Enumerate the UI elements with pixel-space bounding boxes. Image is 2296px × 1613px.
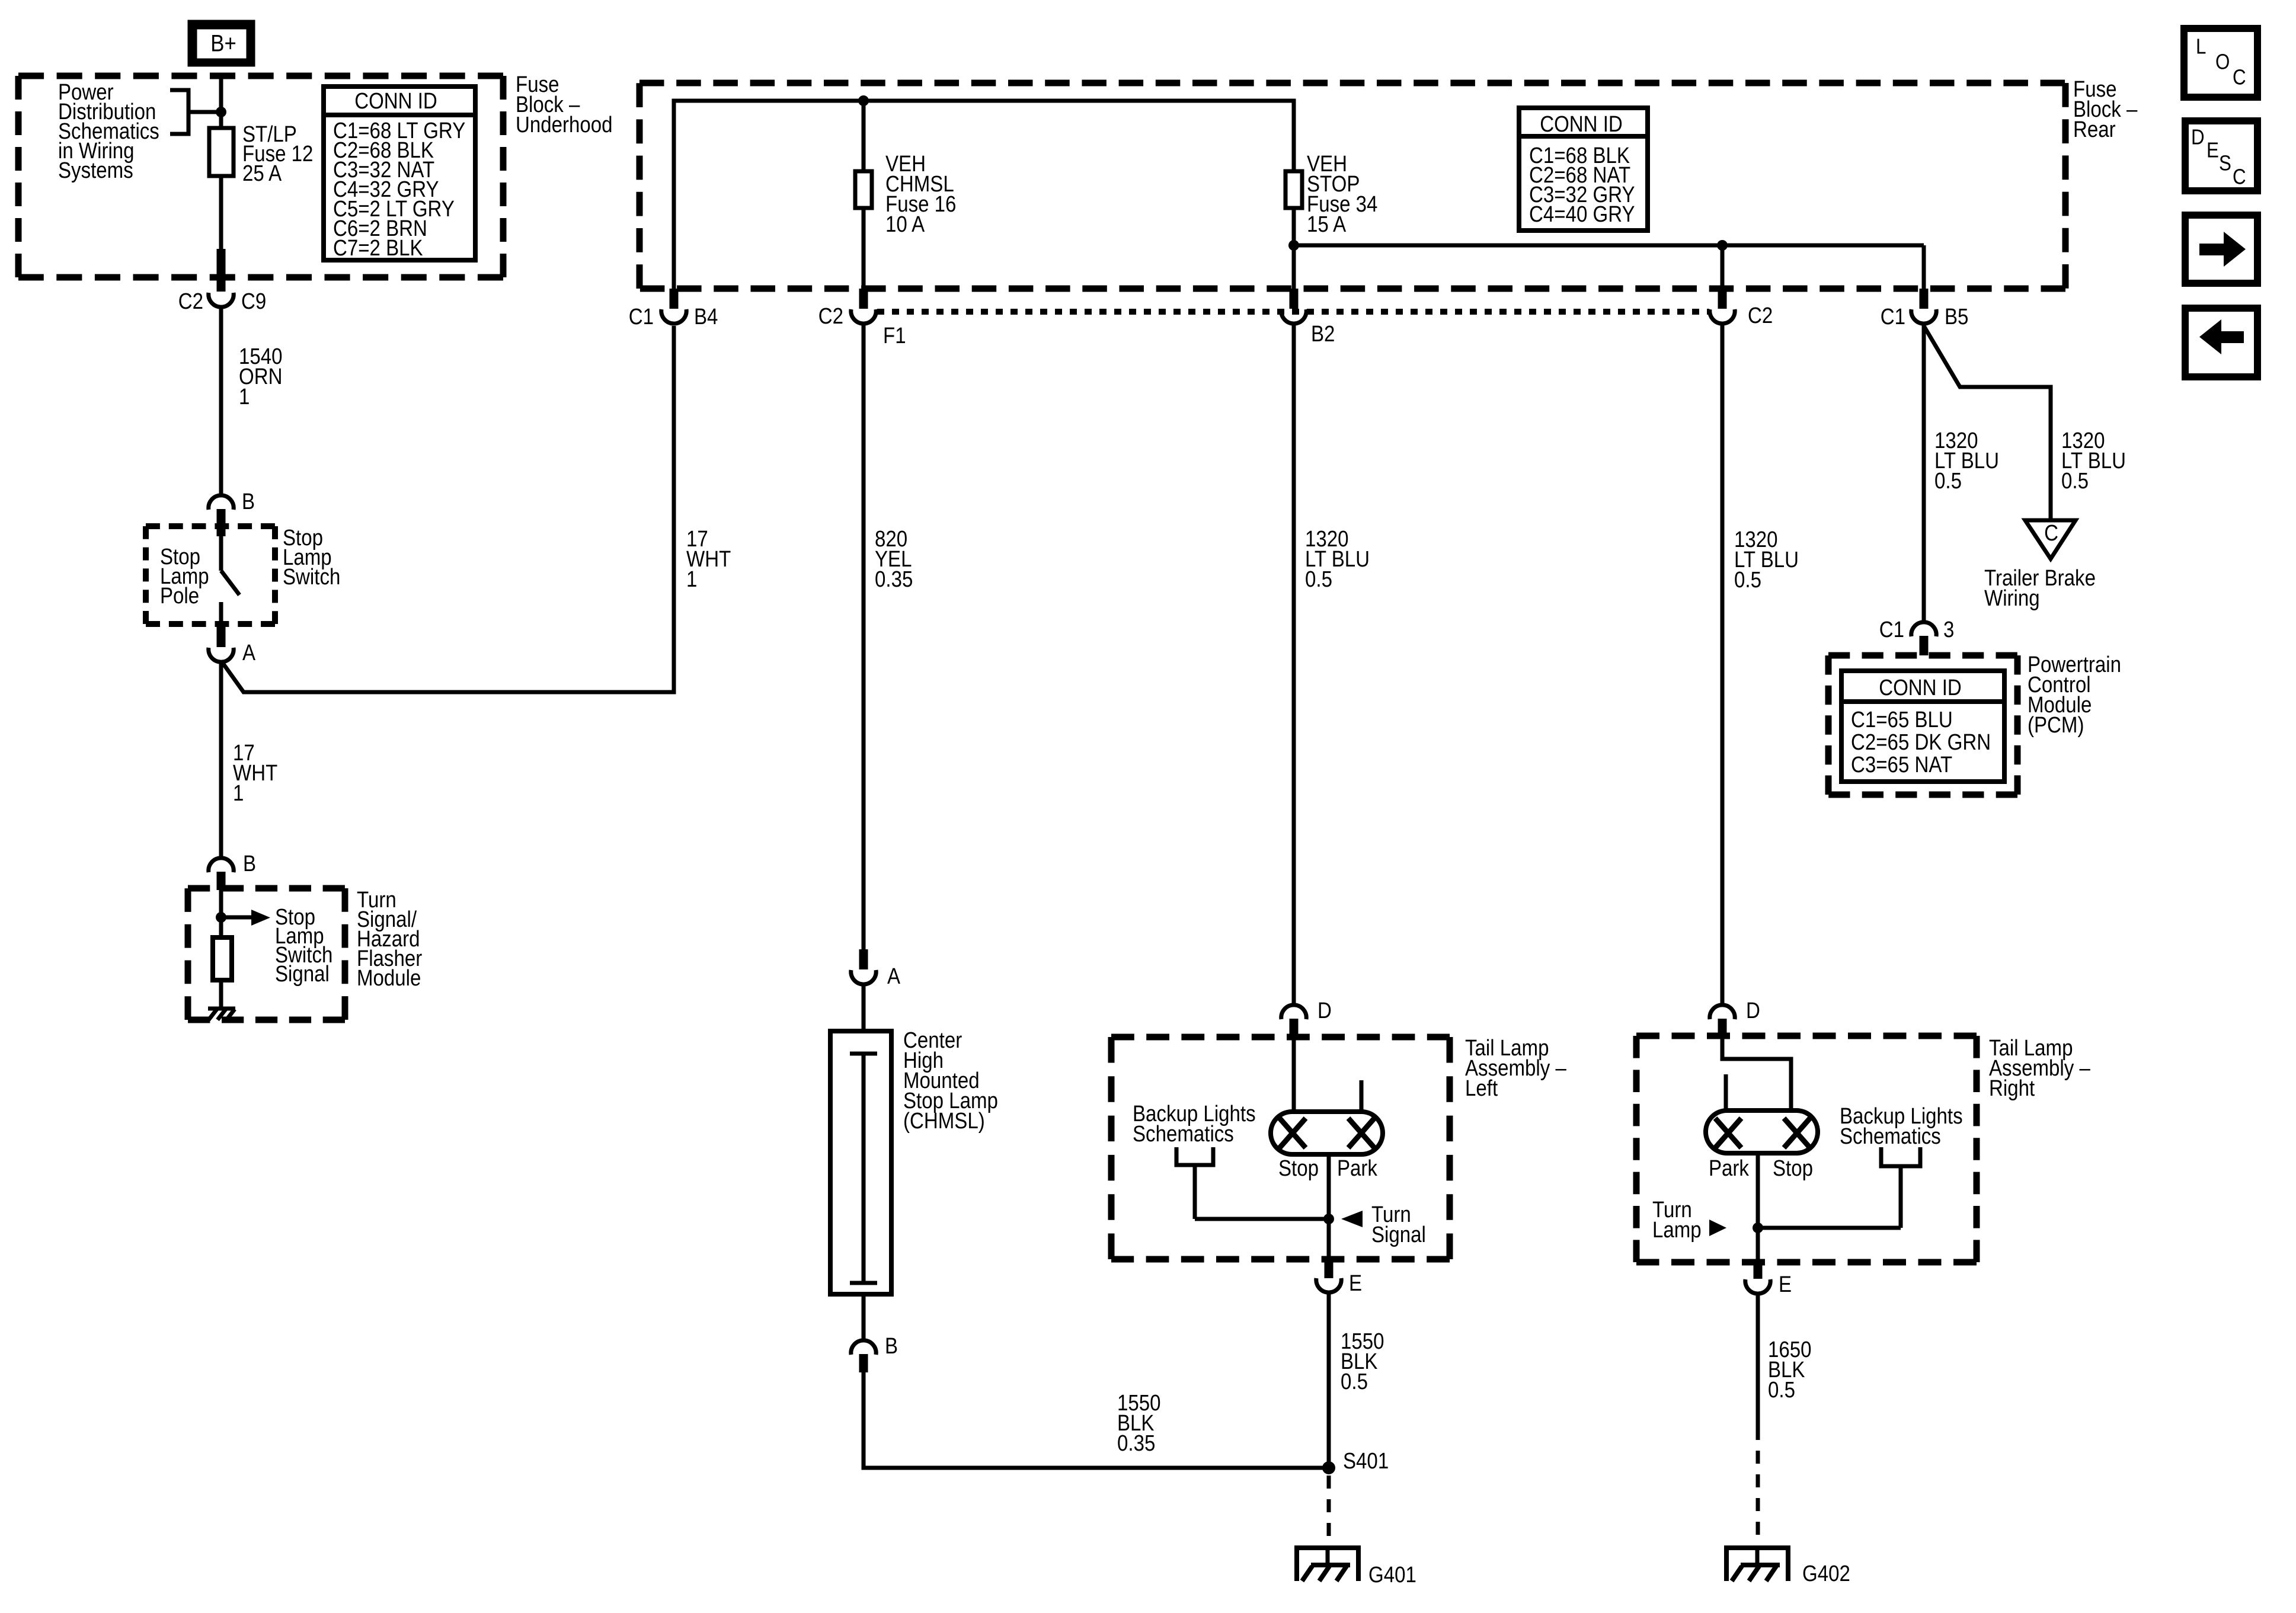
- switch: lower contact lead: [219, 602, 223, 626]
- connector B CHMSL: [851, 1340, 876, 1355]
- svg-text:D: D: [1318, 998, 1332, 1023]
- bracket from note to B+ feed wire: [170, 90, 188, 134]
- svg-text:E: E: [2207, 139, 2219, 163]
- svg-text:C4=40 GRY: C4=40 GRY: [1529, 201, 1635, 227]
- wire 1650 BLK 0.5: [1756, 1293, 1760, 1440]
- right bulb park filament stub: [1724, 1074, 1728, 1113]
- bus wire from fuse 34 to B5 column: [1294, 244, 1924, 248]
- wire fuse 16 to connector F1: [862, 206, 866, 290]
- fuse F34 VEH STOP 15A: [1285, 171, 1302, 208]
- fuse F12 ST/LP 25A: [209, 128, 234, 176]
- junction dot turn signal left: [1323, 1214, 1334, 1224]
- svg-text:A: A: [242, 640, 255, 665]
- svg-text:A: A: [887, 964, 900, 989]
- svg-text:C2: C2: [818, 303, 843, 329]
- svg-text:O: O: [2215, 50, 2230, 75]
- nav icon LOC: [2184, 28, 2257, 97]
- svg-text:C7=2 BLK: C7=2 BLK: [333, 235, 423, 261]
- svg-text:C2: C2: [178, 289, 203, 314]
- conn id table rear: [1519, 108, 1648, 231]
- svg-text:G402: G402: [1802, 1561, 1850, 1586]
- svg-text:Stop: Stop: [1773, 1156, 1813, 1181]
- junction dot on bus at C2 right column: [1717, 240, 1728, 251]
- svg-text:Signal: Signal: [1371, 1222, 1426, 1247]
- svg-text:C1=65 BLU: C1=65 BLU: [1851, 707, 1953, 732]
- svg-text:10 A: 10 A: [885, 212, 925, 237]
- junction dot on B+ feed: [216, 107, 226, 117]
- svg-text:0.5: 0.5: [1341, 1369, 1368, 1394]
- ground in flasher module: [208, 1007, 235, 1011]
- wire 1550 BLK 0.5 E to S401: [1327, 1292, 1331, 1468]
- turn signal arrow left: [1341, 1211, 1363, 1227]
- svg-text:C3=65 NAT: C3=65 NAT: [1851, 752, 1952, 777]
- backup lights bracket left: [1176, 1147, 1213, 1165]
- splice S401: [1322, 1461, 1335, 1474]
- trailer brake wiring connector C: [2025, 520, 2076, 559]
- svg-text:0.5: 0.5: [1934, 468, 1962, 494]
- bus wire top of rear fuse block: [674, 101, 1294, 289]
- stop lamp switch dashed box: [146, 523, 275, 529]
- svg-text:B: B: [242, 489, 255, 514]
- nav icon DESC: [2185, 121, 2257, 191]
- svg-text:(PCM): (PCM): [2028, 712, 2084, 738]
- fuse block underhood dashed box: [18, 73, 503, 79]
- wire 17 WHT from switch A to rear fuse block C1 B4: [221, 326, 674, 692]
- svg-text:B: B: [885, 1333, 898, 1359]
- svg-text:D: D: [2191, 126, 2205, 150]
- svg-text:Right: Right: [1989, 1076, 2035, 1101]
- ground G402: [1724, 1545, 1790, 1550]
- svg-text:C1: C1: [629, 304, 654, 329]
- junction dot at fuse 16 tap: [858, 95, 869, 106]
- wire left bulb to E: [1327, 1154, 1331, 1261]
- svg-text:(CHMSL): (CHMSL): [903, 1108, 985, 1134]
- svg-text:CONN ID: CONN ID: [354, 88, 437, 114]
- wire B+ to fuse 12: [219, 75, 223, 130]
- connector C1/B5: [1920, 289, 1929, 309]
- svg-text:B+: B+: [210, 30, 236, 56]
- svg-text:Pole: Pole: [160, 583, 199, 609]
- svg-text:C1: C1: [1879, 617, 1904, 642]
- svg-text:1: 1: [686, 567, 697, 592]
- connector E right: [1754, 1260, 1763, 1279]
- connector A CHMSL: [859, 949, 868, 969]
- svg-text:Left: Left: [1465, 1076, 1498, 1101]
- svg-text:C: C: [2233, 165, 2246, 190]
- connector C2/C9 fuse block underhood: [217, 249, 226, 292]
- connector B flasher module: [209, 858, 234, 872]
- nav icon previous (left arrow): [2185, 308, 2257, 377]
- fuse block rear dashed box: [639, 80, 2065, 87]
- svg-text:Module: Module: [357, 965, 421, 991]
- svg-text:Park: Park: [1337, 1156, 1377, 1181]
- wire B5 to trailer brake connector: [1924, 326, 2051, 522]
- wire fuse 12 to connector C2/C9: [219, 174, 223, 251]
- wire bus to B5 stub: [1922, 245, 1926, 290]
- svg-text:25 A: 25 A: [242, 161, 282, 186]
- resistor in flasher module: [213, 937, 232, 980]
- svg-text:C9: C9: [241, 289, 266, 314]
- junction dot turn lamp right: [1753, 1222, 1763, 1233]
- right tail lamp bulb: [1706, 1110, 1818, 1153]
- junction dot stop lamp switch signal: [216, 912, 226, 923]
- CHMSL lamp filament: [850, 1052, 877, 1056]
- tail lamp assembly right dashed box: [1636, 1033, 1977, 1039]
- svg-text:3: 3: [1943, 617, 1954, 642]
- svg-text:CONN ID: CONN ID: [1879, 675, 1962, 700]
- svg-text:B5: B5: [1945, 304, 1968, 329]
- svg-text:B: B: [243, 851, 256, 876]
- wire 1540 ORN segment: [219, 306, 223, 497]
- svg-text:C1: C1: [1881, 304, 1905, 329]
- wire 1320 LT BLU to left tail lamp D: [1292, 324, 1296, 1005]
- svg-text:B2: B2: [1311, 321, 1335, 347]
- svg-text:L: L: [2196, 35, 2206, 59]
- svg-text:Signal: Signal: [275, 961, 330, 987]
- wire fuse16 tap: [862, 101, 866, 173]
- in-line connector dotted line: [877, 309, 1709, 315]
- svg-text:C2=65 DK GRN: C2=65 DK GRN: [1851, 729, 1991, 755]
- left tail lamp bulb: [1271, 1112, 1383, 1154]
- svg-text:0.35: 0.35: [1117, 1430, 1155, 1456]
- connector D right tail lamp: [1710, 1005, 1735, 1019]
- svg-text:Switch: Switch: [283, 564, 340, 590]
- svg-text:Underhood: Underhood: [516, 112, 613, 137]
- dashed wire to ground G402: [1756, 1451, 1760, 1547]
- dashed wire S401 to ground G401: [1327, 1476, 1331, 1547]
- connector A stop lamp switch: [217, 624, 226, 647]
- wire B5 to PCM connector: [1922, 324, 1926, 622]
- backup lights bracket right: [1881, 1147, 1920, 1166]
- connector D left tail lamp: [1281, 1005, 1306, 1019]
- wire right bulb to E: [1756, 1153, 1760, 1263]
- wire D to left bulb: [1292, 1038, 1296, 1114]
- svg-text:Wiring: Wiring: [1984, 585, 2040, 611]
- svg-text:D: D: [1746, 998, 1760, 1023]
- wire resistor to ground: [219, 980, 223, 1009]
- svg-text:0.35: 0.35: [875, 567, 913, 592]
- svg-text:F1: F1: [883, 323, 906, 348]
- svg-text:Schematics: Schematics: [1133, 1121, 1234, 1147]
- wire 17 WHT down to flasher: [219, 661, 223, 858]
- junction dot below fuse 34: [1288, 240, 1299, 251]
- ground G401: [1294, 1545, 1361, 1550]
- svg-text:CONN ID: CONN ID: [1540, 111, 1623, 137]
- svg-text:Systems: Systems: [58, 158, 133, 183]
- switch: upper contact lead: [219, 536, 223, 571]
- wire fuse 34 down to B2: [1292, 206, 1296, 290]
- connector C2/F1: [859, 289, 868, 309]
- battery feed B+ symbol: [188, 20, 255, 66]
- connector B2: [1290, 289, 1299, 309]
- wire B into flasher: [219, 890, 223, 939]
- wire A to CHMSL lamp: [862, 983, 866, 1033]
- CHMSL lamp housing: [830, 1031, 891, 1294]
- turn signal / hazard flasher module dashed box: [188, 885, 345, 892]
- svg-text:0.5: 0.5: [2061, 468, 2089, 494]
- svg-text:E: E: [1779, 1272, 1792, 1297]
- wire bus to C2 right stub: [1721, 245, 1725, 290]
- connector C2 (right): [1718, 289, 1727, 309]
- connector B stop lamp switch: [209, 495, 234, 510]
- arrow stop lamp switch signal: [221, 916, 252, 920]
- wire 1550 BLK 0.35 to splice S401: [864, 1372, 1329, 1468]
- svg-text:1: 1: [239, 384, 250, 409]
- svg-text:1: 1: [233, 780, 244, 806]
- nav icon next (right arrow): [2185, 215, 2257, 283]
- svg-text:C: C: [2233, 66, 2246, 90]
- svg-text:C2: C2: [1748, 303, 1773, 328]
- left bulb park filament stub: [1360, 1080, 1364, 1114]
- svg-text:G401: G401: [1368, 1562, 1416, 1588]
- svg-text:15 A: 15 A: [1307, 212, 1346, 237]
- svg-text:B4: B4: [694, 304, 718, 329]
- fuse F16 VEH CHMSL 10A: [855, 171, 872, 208]
- turn lamp arrow right: [1709, 1220, 1726, 1236]
- svg-text:0.5: 0.5: [1734, 567, 1761, 593]
- svg-text:0.5: 0.5: [1305, 567, 1332, 592]
- svg-text:0.5: 0.5: [1768, 1377, 1795, 1403]
- connector C1/B4: [670, 289, 679, 309]
- svg-text:Park: Park: [1709, 1156, 1749, 1181]
- svg-text:Rear: Rear: [2073, 117, 2116, 142]
- svg-text:S401: S401: [1343, 1448, 1389, 1474]
- svg-text:Stop: Stop: [1278, 1156, 1319, 1181]
- wire D to right bulb: [1722, 1038, 1791, 1113]
- connector E left: [1325, 1259, 1334, 1278]
- svg-text:C: C: [2044, 520, 2058, 546]
- svg-text:Lamp: Lamp: [1652, 1217, 1702, 1243]
- connector C1/3 PCM: [1911, 622, 1936, 636]
- svg-text:Schematics: Schematics: [1840, 1124, 1941, 1149]
- wire 820 YEL F1 to CHMSL connector A: [862, 324, 866, 952]
- conn id table underhood: [324, 87, 475, 260]
- tail lamp assembly left dashed box: [1111, 1034, 1450, 1041]
- switch: blade: [221, 571, 239, 595]
- wire 1320 LT BLU to right tail lamp D: [1721, 324, 1725, 1005]
- svg-text:S: S: [2219, 152, 2231, 176]
- svg-text:E: E: [1349, 1270, 1362, 1296]
- conn id table PCM: [1841, 671, 2004, 782]
- wire CHMSL to connector B: [862, 1294, 866, 1340]
- powertrain control module dashed box: [1828, 652, 2017, 659]
